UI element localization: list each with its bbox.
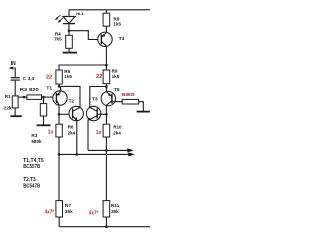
wire LED drop from rail [68,10,70,17]
wire T1 collector down [58,105,60,124]
wire emitter-supply bus [59,65,106,70]
node bus/T4/R9 junction [105,64,108,67]
svg-text:BC557B: BC557B [23,164,40,170]
svg-text:39k: 39k [65,209,73,214]
resistor R7 [56,201,63,227]
transistor T5 (PNP mirrored) [101,91,115,105]
wire down to R7 [58,154,60,200]
wire input node horizontal [15,96,27,98]
resistor 680 (red label) [122,99,143,111]
svg-text:T3: T3 [92,97,98,103]
svg-text:R9: R9 [112,69,118,74]
resistor R4 [66,31,73,52]
svg-text:2k4: 2k4 [68,130,76,135]
resistor R10 [103,124,110,137]
svg-text:T2,T3: T2,T3 [23,177,36,183]
resistor R5 [56,70,62,84]
node R11 to bottom rail [105,225,108,228]
svg-text:1x: 1x [96,130,102,136]
svg-text:T2: T2 [69,98,75,104]
wire T4 base connection [69,31,101,40]
svg-text:4x7*: 4x7* [45,209,55,215]
wire T5 base to T3 base link [97,113,106,115]
wire T5 emitter node to T3 collector [90,87,107,108]
svg-text:1k5: 1k5 [64,74,72,79]
resistor R9 [103,65,110,92]
LED HL1 [55,15,75,31]
svg-text:39k: 39k [111,209,119,214]
svg-text:680: 680 [121,92,135,98]
svg-text:680k: 680k [31,139,42,144]
node T1 collector / T2 base junction [58,113,61,116]
svg-text:HL1: HL1 [76,11,84,16]
transistor T1 (PNP) [53,91,67,105]
wire output line 2 with arrow [88,148,134,152]
svg-text:22: 22 [96,74,102,80]
transistor T2 (NPN) [69,106,83,120]
svg-text:1k5: 1k5 [112,74,120,79]
wire T1 emitter node to T2 collector [59,86,80,107]
svg-text:22: 22 [46,75,52,81]
svg-text:R5: R5 [64,69,70,74]
resistor R6 [56,124,62,137]
svg-text:2k4: 2k4 [113,130,121,135]
svg-text:T1,T4,T5: T1,T4,T5 [23,158,44,164]
node C/R1/R2 junction [23,96,26,99]
svg-text:IN: IN [11,61,16,67]
svg-text:R2 820: R2 820 [20,87,40,92]
node T5 collector / T3 base junction [105,113,108,116]
transistor T3 (NPN mirrored) [86,106,100,120]
node T2 emitter output junction [76,153,79,156]
wire to T2 base [59,113,73,115]
svg-text:R11: R11 [111,203,120,208]
resistor R11 [103,201,110,227]
svg-text:1k5: 1k5 [113,22,121,27]
wire R5 to T1 emitter [58,84,60,86]
wire T2 emitter down [76,120,78,154]
ground after 680 [137,111,150,113]
wire T5 emitter lead [106,87,108,93]
svg-text:R10: R10 [113,124,122,129]
wire top supply rail [69,9,150,11]
resistor R8 [103,10,110,33]
svg-text:BC547B: BC547B [23,183,40,189]
resistor R1 [12,96,18,116]
svg-text:7k5: 7k5 [54,37,62,42]
capacitor C 3,3 [11,78,20,97]
node R3 tap junction [42,96,45,99]
wire output line 1 with arrow [59,152,135,156]
ground below R1 [10,115,21,117]
resistor R2 [27,95,53,100]
svg-text:R1: R1 [5,94,11,99]
wire T4 collector to bus [105,46,107,65]
ground below R3 [37,124,51,126]
wire T5 base to 680 [112,101,122,103]
input terminal IN with arrow [9,67,16,78]
svg-text:R7: R7 [65,203,71,208]
svg-text:T5: T5 [114,87,120,93]
wire T5 collector down to R10 [105,105,107,124]
wire bottom rail [59,226,150,228]
node T1 emitter junction [58,85,61,88]
svg-text:R6: R6 [68,124,74,129]
resistor R3 [40,97,46,125]
wire R10 down through output lines to R11 [105,137,107,201]
ground below R4 [63,52,77,54]
node output 2 junction [105,149,108,152]
svg-text:R3: R3 [31,133,37,138]
node R6/R7 output junction [58,153,61,156]
svg-text:T4: T4 [119,36,125,42]
svg-text:22k: 22k [4,105,12,110]
svg-text:C 3,3: C 3,3 [23,76,35,82]
svg-text:T1: T1 [46,85,52,91]
svg-text:4x7*: 4x7* [89,210,99,216]
wire T3 emitter down to output [87,120,89,150]
wire R6 to output line [58,137,60,154]
node LED/R4/T4-base junction [68,29,71,32]
wire T1 emitter lead [60,86,62,91]
node T5 emitter junction [105,85,108,88]
transistor T4 (PNP) [98,32,112,46]
svg-text:1x: 1x [48,130,54,136]
